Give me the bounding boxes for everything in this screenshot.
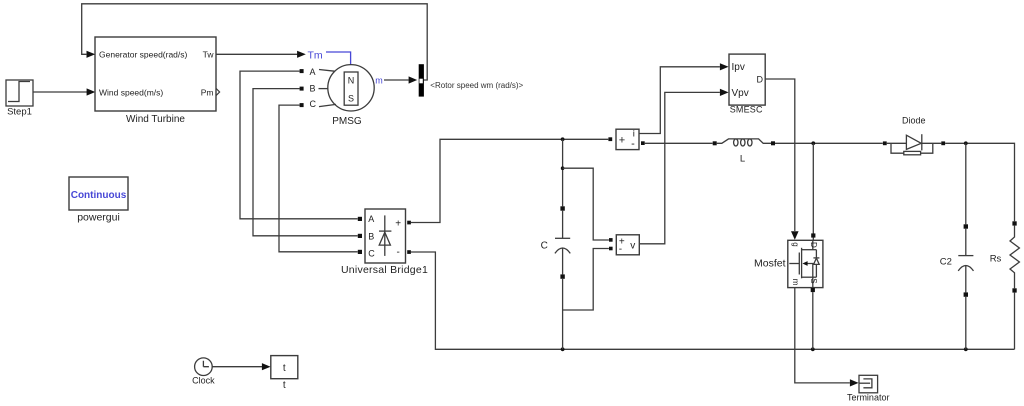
svg-text:Generator speed(rad/s): Generator speed(rad/s): [99, 49, 188, 59]
svg-text:Terminator: Terminator: [847, 392, 890, 402]
junction DC plus and capacitor C: [561, 137, 565, 141]
svg-text:Ipv: Ipv: [732, 62, 745, 73]
junction rail capacitor C2: [964, 141, 968, 145]
wire voltage measurement bracket: [563, 168, 609, 310]
wire Mosfet source to bottom rail: [811, 288, 815, 349]
svg-text:Vpv: Vpv: [732, 88, 749, 99]
bus selector rotor speed: [419, 64, 424, 96]
wire PMSG m output to bus selector: [384, 76, 417, 83]
wire v output to SMESC Vpv: [639, 89, 728, 244]
controller SMESC: [729, 54, 765, 105]
node A port of PMSG: [300, 69, 335, 73]
sink Terminator: [859, 375, 878, 393]
svg-text:Mosfet: Mosfet: [754, 258, 786, 270]
svg-text:PMSG: PMSG: [332, 116, 362, 127]
junction bottom rail Mosfet source: [811, 347, 815, 351]
svg-text:Step1: Step1: [7, 107, 32, 118]
svg-text:B: B: [368, 231, 374, 241]
inductor L: [713, 139, 775, 146]
svg-text:C: C: [310, 99, 317, 109]
power diode Diode: [883, 134, 945, 155]
wire SMESC D output to Mosfet gate: [765, 79, 798, 240]
svg-text:N: N: [348, 76, 355, 86]
svg-text:B: B: [310, 83, 316, 93]
svg-text:t: t: [283, 380, 286, 391]
svg-text:g: g: [791, 242, 800, 246]
synchronous machine PMSG: [328, 65, 374, 111]
step source Step1: [6, 80, 33, 106]
svg-text:+: +: [395, 219, 401, 230]
subsystem Wind Turbine: [95, 37, 216, 111]
wire i output to SMESC Ipv: [639, 63, 729, 133]
node C port of PMSG: [300, 103, 336, 107]
junction capacitor C to voltage bracket top: [561, 166, 565, 170]
wire phase C PMSG to bridge: [279, 105, 358, 252]
svg-text:S: S: [809, 278, 818, 283]
svg-text:m: m: [791, 279, 800, 286]
svg-text:A: A: [310, 67, 316, 77]
svg-text:+: +: [619, 134, 625, 146]
svg-text:S: S: [348, 93, 354, 103]
node B port of PMSG: [300, 87, 329, 91]
resistor Rs: [1010, 221, 1019, 349]
svg-text:<Rotor speed wm (rad/s)>: <Rotor speed wm (rad/s)>: [430, 81, 523, 90]
svg-text:v: v: [630, 240, 635, 251]
wire drain drop to Mosfet: [811, 143, 815, 240]
wire Tm blue connector to PMSG: [326, 52, 351, 65]
svg-text:Wind speed(m/s): Wind speed(m/s): [99, 87, 163, 97]
capacitor C: [555, 139, 570, 349]
voltage measurement v: [609, 235, 639, 255]
svg-text:Wind Turbine: Wind Turbine: [126, 114, 185, 125]
wire DC minus bridge to bottom rail: [411, 252, 1015, 349]
to-workspace block t: [271, 356, 298, 379]
svg-text:A: A: [368, 214, 374, 224]
svg-text:Universal Bridge1: Universal Bridge1: [341, 264, 428, 276]
svg-text:Pm: Pm: [201, 87, 214, 97]
svg-text:D: D: [757, 75, 764, 85]
svg-text:Clock: Clock: [192, 375, 215, 385]
svg-text:L: L: [740, 153, 745, 164]
current measurement i: [608, 129, 644, 149]
wire Tw output to Tm label: [216, 51, 306, 58]
svg-text:-: -: [619, 244, 622, 255]
junction rail to Mosfet drain: [811, 141, 815, 145]
svg-text:t: t: [283, 363, 286, 374]
wire inductor L to diode: [775, 142, 883, 144]
svg-text:C: C: [368, 249, 375, 259]
svg-text:m: m: [375, 75, 383, 85]
rectifier Universal Bridge1: [358, 209, 411, 263]
svg-text:Continuous: Continuous: [71, 190, 127, 201]
wire diode to C2 and Rs: [945, 143, 1014, 221]
svg-text:Tm: Tm: [308, 49, 323, 61]
svg-text:C: C: [541, 241, 548, 252]
wire Mosfet m output to Terminator: [795, 288, 859, 387]
powergui block: [69, 177, 128, 210]
wire phase B PMSG to bridge: [253, 89, 358, 236]
junction bottom rail capacitor C2: [964, 347, 968, 351]
wire DC plus bridge to current measurement: [411, 139, 608, 222]
svg-text:-: -: [397, 247, 400, 258]
svg-text:SMESC: SMESC: [730, 105, 763, 115]
wire Step1 to Wind Turbine: [33, 88, 95, 95]
svg-text:powergui: powergui: [77, 212, 120, 224]
wire feedback rotor-speed to Generator speed input: [82, 4, 428, 80]
clock source Clock: [195, 358, 213, 376]
junction bottom rail capacitor C: [561, 347, 565, 351]
wire phase A PMSG to bridge: [240, 71, 358, 219]
svg-text:-: -: [631, 138, 635, 150]
svg-text:Rs: Rs: [990, 254, 1002, 265]
wire Clock to t: [212, 363, 270, 370]
svg-text:D: D: [809, 242, 818, 248]
svg-text:Tw: Tw: [203, 49, 215, 59]
svg-text:C2: C2: [940, 257, 952, 268]
switch Mosfet: [788, 240, 823, 287]
capacitor C2: [958, 143, 973, 349]
pin Pm output chevron: [216, 89, 219, 96]
svg-text:Diode: Diode: [902, 116, 926, 126]
wire i minus to inductor L: [645, 142, 713, 144]
